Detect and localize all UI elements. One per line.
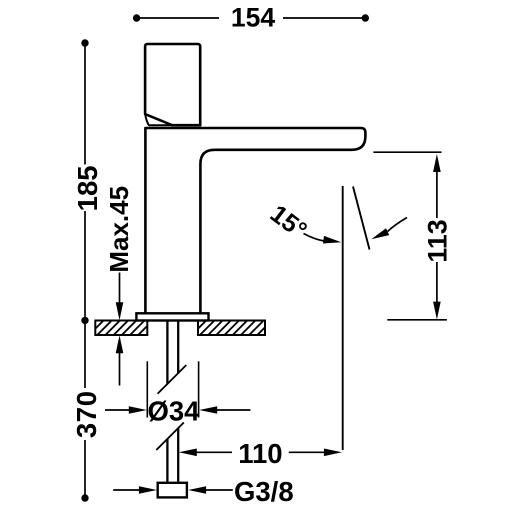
svg-text:Max.45: Max.45 xyxy=(104,186,134,273)
dimension 154 line xyxy=(137,17,366,19)
Max.45 lower arrow xyxy=(119,350,121,386)
Max.45 upper arrow xyxy=(119,273,121,306)
Ø34 right arrow xyxy=(216,409,250,411)
Ø34 extension line right xyxy=(198,361,200,417)
svg-text:110: 110 xyxy=(238,438,282,469)
dimension 185 line xyxy=(84,46,86,317)
G3/8 right arrow xyxy=(206,489,233,491)
dimension 370 line xyxy=(84,324,86,495)
water stream centerline xyxy=(342,186,344,450)
svg-text:370: 370 xyxy=(71,390,102,438)
svg-text:113: 113 xyxy=(423,219,453,262)
dimension 110 line xyxy=(196,451,232,453)
15 degree slanted stream line xyxy=(353,187,370,250)
Ø34 left arrow xyxy=(105,409,130,411)
dimension 113 top arrow xyxy=(433,154,441,172)
handle front lip xyxy=(145,114,172,125)
15 degree right leader arrow xyxy=(388,218,408,232)
113 extension line top xyxy=(373,151,441,153)
supply pipe xyxy=(167,321,178,483)
dimension 370 end dot bottom xyxy=(81,494,88,501)
pipe break mark upper xyxy=(158,365,187,394)
dimension 154 end dot left xyxy=(133,14,140,21)
Ø34 extension line left xyxy=(146,361,148,417)
dimension 185 end dot top xyxy=(81,39,88,46)
dimension 110 left arrow xyxy=(179,449,197,457)
dimension 154 end dot right xyxy=(362,14,369,21)
dimension 185/370 shared dot xyxy=(81,317,88,324)
svg-text:Ø34: Ø34 xyxy=(148,396,201,427)
pipe break mark lower xyxy=(156,423,184,451)
counter section right (hatched) xyxy=(184,321,272,336)
G3/8 left arrow xyxy=(113,489,141,491)
dimension 113 bottom arrow xyxy=(433,302,441,320)
svg-text:G3/8: G3/8 xyxy=(234,476,294,507)
base flange xyxy=(136,313,208,320)
G3/8 threaded connector xyxy=(158,483,187,498)
dimension 113 line xyxy=(436,170,438,218)
faucet body and spout outline xyxy=(145,128,365,313)
svg-text:154: 154 xyxy=(231,3,275,33)
faucet handle lever xyxy=(145,44,200,125)
svg-text:185: 185 xyxy=(72,165,103,211)
113 extension line bottom xyxy=(387,319,447,321)
15 degree left leader arrow xyxy=(304,234,324,241)
dimension 110 right arrow xyxy=(324,449,342,457)
counter section left (hatched) xyxy=(81,321,161,336)
